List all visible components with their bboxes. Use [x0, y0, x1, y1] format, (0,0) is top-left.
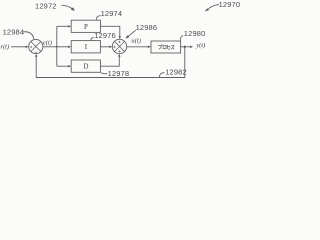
label 12984 first summing junction — [3, 28, 25, 37]
svg-text:12974: 12974 — [101, 9, 123, 18]
input signal r(t) — [0, 43, 9, 50]
leader arrow to 12970 — [205, 4, 219, 11]
label 12986 second summing junction — [136, 23, 158, 32]
leader 12978 — [101, 73, 107, 74]
leader 12982 — [159, 73, 164, 78]
svg-text:e(t): e(t) — [43, 39, 52, 46]
wire error line to branch node — [43, 46, 57, 48]
label 12982 feedback path — [165, 68, 187, 77]
svg-text:r(t): r(t) — [0, 43, 9, 50]
svg-text:u(t): u(t) — [131, 38, 141, 45]
wire feedback path — [35, 47, 185, 78]
leader arrow 12986 — [126, 30, 136, 39]
node output tap — [184, 46, 186, 48]
label 12978 D block — [108, 69, 130, 78]
plus sign top sector junction 2 — [118, 41, 120, 43]
svg-text:12978: 12978 — [108, 69, 130, 78]
svg-text:12984: 12984 — [3, 28, 25, 37]
leader arrow from 12972 — [62, 5, 75, 11]
leader 12984 — [23, 32, 34, 39]
wire arrow into D — [57, 65, 71, 67]
output signal y(t) — [195, 42, 205, 49]
node branch junction — [56, 46, 58, 48]
summing junction 12984 circle — [29, 39, 43, 53]
svg-text:P: P — [84, 23, 88, 31]
error signal e(t) — [43, 39, 52, 46]
wire u(t) to process block — [127, 46, 151, 48]
minus sign bottom of junction 1 — [35, 51, 37, 53]
wire process output — [181, 46, 185, 48]
label 12970 figure number — [219, 0, 241, 9]
svg-text:12980: 12980 — [184, 29, 206, 38]
plus sign left of junction 1 — [30, 46, 32, 48]
block I integral — [71, 41, 100, 53]
leader 12974 — [96, 16, 100, 20]
wire D output to summing junction 2 — [100, 54, 120, 66]
svg-text:D: D — [83, 63, 88, 71]
katakana ro — [163, 45, 166, 48]
wire arrow into I — [57, 46, 71, 48]
plus sign left sector junction 2 — [113, 46, 115, 48]
wire r(t) input arrow — [11, 46, 29, 48]
block D derivative — [71, 60, 100, 72]
wire output arrow to y(t) — [185, 46, 193, 48]
wire arrow into P — [57, 25, 71, 27]
label 12972 controller group — [35, 1, 57, 10]
leader 12976 — [91, 38, 94, 41]
leader 12980 — [180, 36, 183, 41]
control signal u(t) — [131, 38, 141, 45]
summing junction 12986 circle — [112, 39, 126, 53]
svg-text:12972: 12972 — [35, 1, 57, 10]
wire P output to summing junction 2 — [100, 26, 121, 39]
label 12974 P block — [101, 9, 123, 18]
block process (katakana) — [151, 41, 181, 53]
label 12976 I block — [94, 31, 116, 40]
wire I output to summing junction 2 — [100, 46, 112, 48]
wire branch vertical — [56, 26, 58, 66]
katakana se — [167, 45, 170, 49]
label 12980 process block — [184, 29, 206, 38]
svg-text:I: I — [85, 43, 88, 51]
katakana pu — [158, 44, 162, 49]
plus sign bottom sector junction 2 — [118, 50, 120, 52]
katakana su — [171, 45, 174, 49]
svg-text:12970: 12970 — [219, 0, 240, 9]
block P proportional — [71, 20, 100, 32]
svg-text:12986: 12986 — [136, 23, 158, 32]
svg-text:12982: 12982 — [165, 68, 187, 77]
svg-text:y(t): y(t) — [195, 42, 205, 49]
